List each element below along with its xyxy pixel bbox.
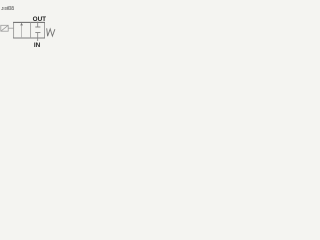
svg-text:IN: IN [34,42,41,49]
blocked port T (top, right cell) [37,22,39,27]
blocked port T (bottom, right cell) [35,32,40,34]
flow path line (left cell) [21,23,23,38]
solenoid actuator box [1,25,8,31]
svg-text:JIS: JIS [1,6,8,11]
wire solenoid to valve [8,27,13,29]
OUT port stem [37,21,39,24]
title JIS記号 [1,6,14,11]
return spring [47,28,55,36]
svg-text:OUT: OUT [33,16,47,23]
solenoid diagonal [1,25,8,31]
IN port stem [37,38,39,41]
flow arrowhead up [20,23,23,26]
valve body outer box [14,22,45,38]
valve position divider [30,22,32,38]
